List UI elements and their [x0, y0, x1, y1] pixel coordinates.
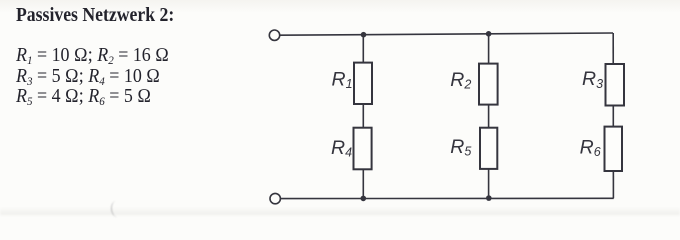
resistor R2 [479, 64, 498, 105]
resistor R3 [606, 64, 625, 106]
junction dot bottom branch2 [486, 195, 492, 201]
junction dot top branch1 [361, 32, 367, 38]
svg-text:R6: R6 [580, 136, 601, 159]
scan shading bottom [0, 207, 680, 215]
wire branch 2 vertical [488, 34, 490, 198]
terminal bottom-left [270, 193, 280, 203]
resistor R4 [354, 128, 372, 170]
svg-text:R1: R1 [332, 69, 353, 92]
wire top horizontal [280, 33, 613, 35]
resistor R6 [605, 127, 623, 171]
faint pencil mark [110, 200, 123, 217]
wire bottom horizontal [281, 197, 614, 199]
svg-text:R3: R3 [582, 68, 603, 91]
junction dot bottom branch1 [361, 196, 367, 202]
resistor R1 [354, 63, 372, 104]
wire branch 1 vertical [362, 35, 364, 199]
svg-text:R5: R5 [450, 136, 471, 159]
svg-text:R4: R4 [331, 137, 352, 160]
junction dot top branch2 [486, 31, 492, 37]
wire branch 3 vertical [612, 33, 614, 198]
scan shading top [0, 0, 680, 13]
resistor R5 [480, 128, 497, 169]
svg-text:R2: R2 [450, 69, 471, 92]
terminal top-left [269, 30, 279, 40]
